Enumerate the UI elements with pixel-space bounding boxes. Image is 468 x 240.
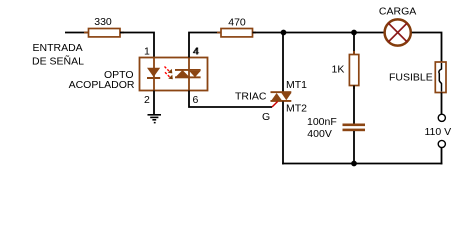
wire bottom rail [282,163,442,165]
pin 4 label [193,45,200,57]
svg-text:400V: 400V [307,128,332,140]
svg-text:MT1: MT1 [286,79,307,91]
light arrows [165,67,173,80]
resistor 470 leads [217,32,256,34]
wire photo-triac inside box [188,58,190,91]
node junction top-left [281,30,287,36]
resistor 330 [89,29,121,37]
wire pin 4 riser to 470 [189,33,221,58]
node junction top-right [351,30,357,36]
node junction bottom [351,161,357,167]
wire fuse to terminal [441,93,443,115]
resistor 1K leads [353,51,355,89]
wire LED anode inside box [153,58,155,91]
wire lamp to fuse [412,33,442,63]
svg-text:100nF: 100nF [307,116,337,128]
svg-text:470: 470 [228,16,246,28]
wire triac MT2 drop [282,102,284,165]
wire triac MT1 drop [282,33,284,93]
wire gate from pin 6 [189,91,272,108]
diode LED emitter [147,68,160,79]
wire 1K drop [353,33,355,56]
wire input left [65,32,89,34]
wire capacitor to bottom rail [353,131,355,164]
resistor 1K [349,55,358,86]
svg-text:G: G [262,111,270,123]
svg-text:110 V: 110 V [425,126,452,138]
wire from 330 to pin 1 [120,33,154,59]
fuse F1 [435,62,446,93]
svg-text:4: 4 [193,45,199,57]
ground [148,91,162,124]
resistor 470 [221,29,253,37]
lamp CARGA [385,19,411,45]
svg-text:MT2: MT2 [286,102,307,114]
op-amp U1 optocoupler box [140,58,208,91]
wire terminal to bottom rail [441,148,443,165]
photo-triac symbol [175,69,201,78]
resistor 330 leads [84,32,124,34]
svg-text:CARGA: CARGA [379,6,416,18]
svg-text:330: 330 [94,16,112,28]
wire top rail [253,32,385,34]
svg-text:TRIAC: TRIAC [235,91,267,103]
transistor Q1 TRIAC [271,91,292,102]
svg-text:6: 6 [193,94,199,106]
svg-text:ENTRADA: ENTRADA [33,42,83,54]
svg-text:DE SEÑAL: DE SEÑAL [32,55,84,68]
svg-text:ACOPLADOR: ACOPLADOR [69,79,135,91]
node terminal bottom 110V [438,140,445,147]
capacitor C1 [343,124,366,132]
svg-text:1K: 1K [332,63,345,75]
svg-text:2: 2 [144,94,150,106]
wire gate red lead [272,102,278,108]
node terminal top 110V [438,114,445,121]
svg-text:FUSIBLE: FUSIBLE [389,71,433,83]
svg-text:1: 1 [144,46,150,58]
wire 1K to capacitor [353,86,355,125]
